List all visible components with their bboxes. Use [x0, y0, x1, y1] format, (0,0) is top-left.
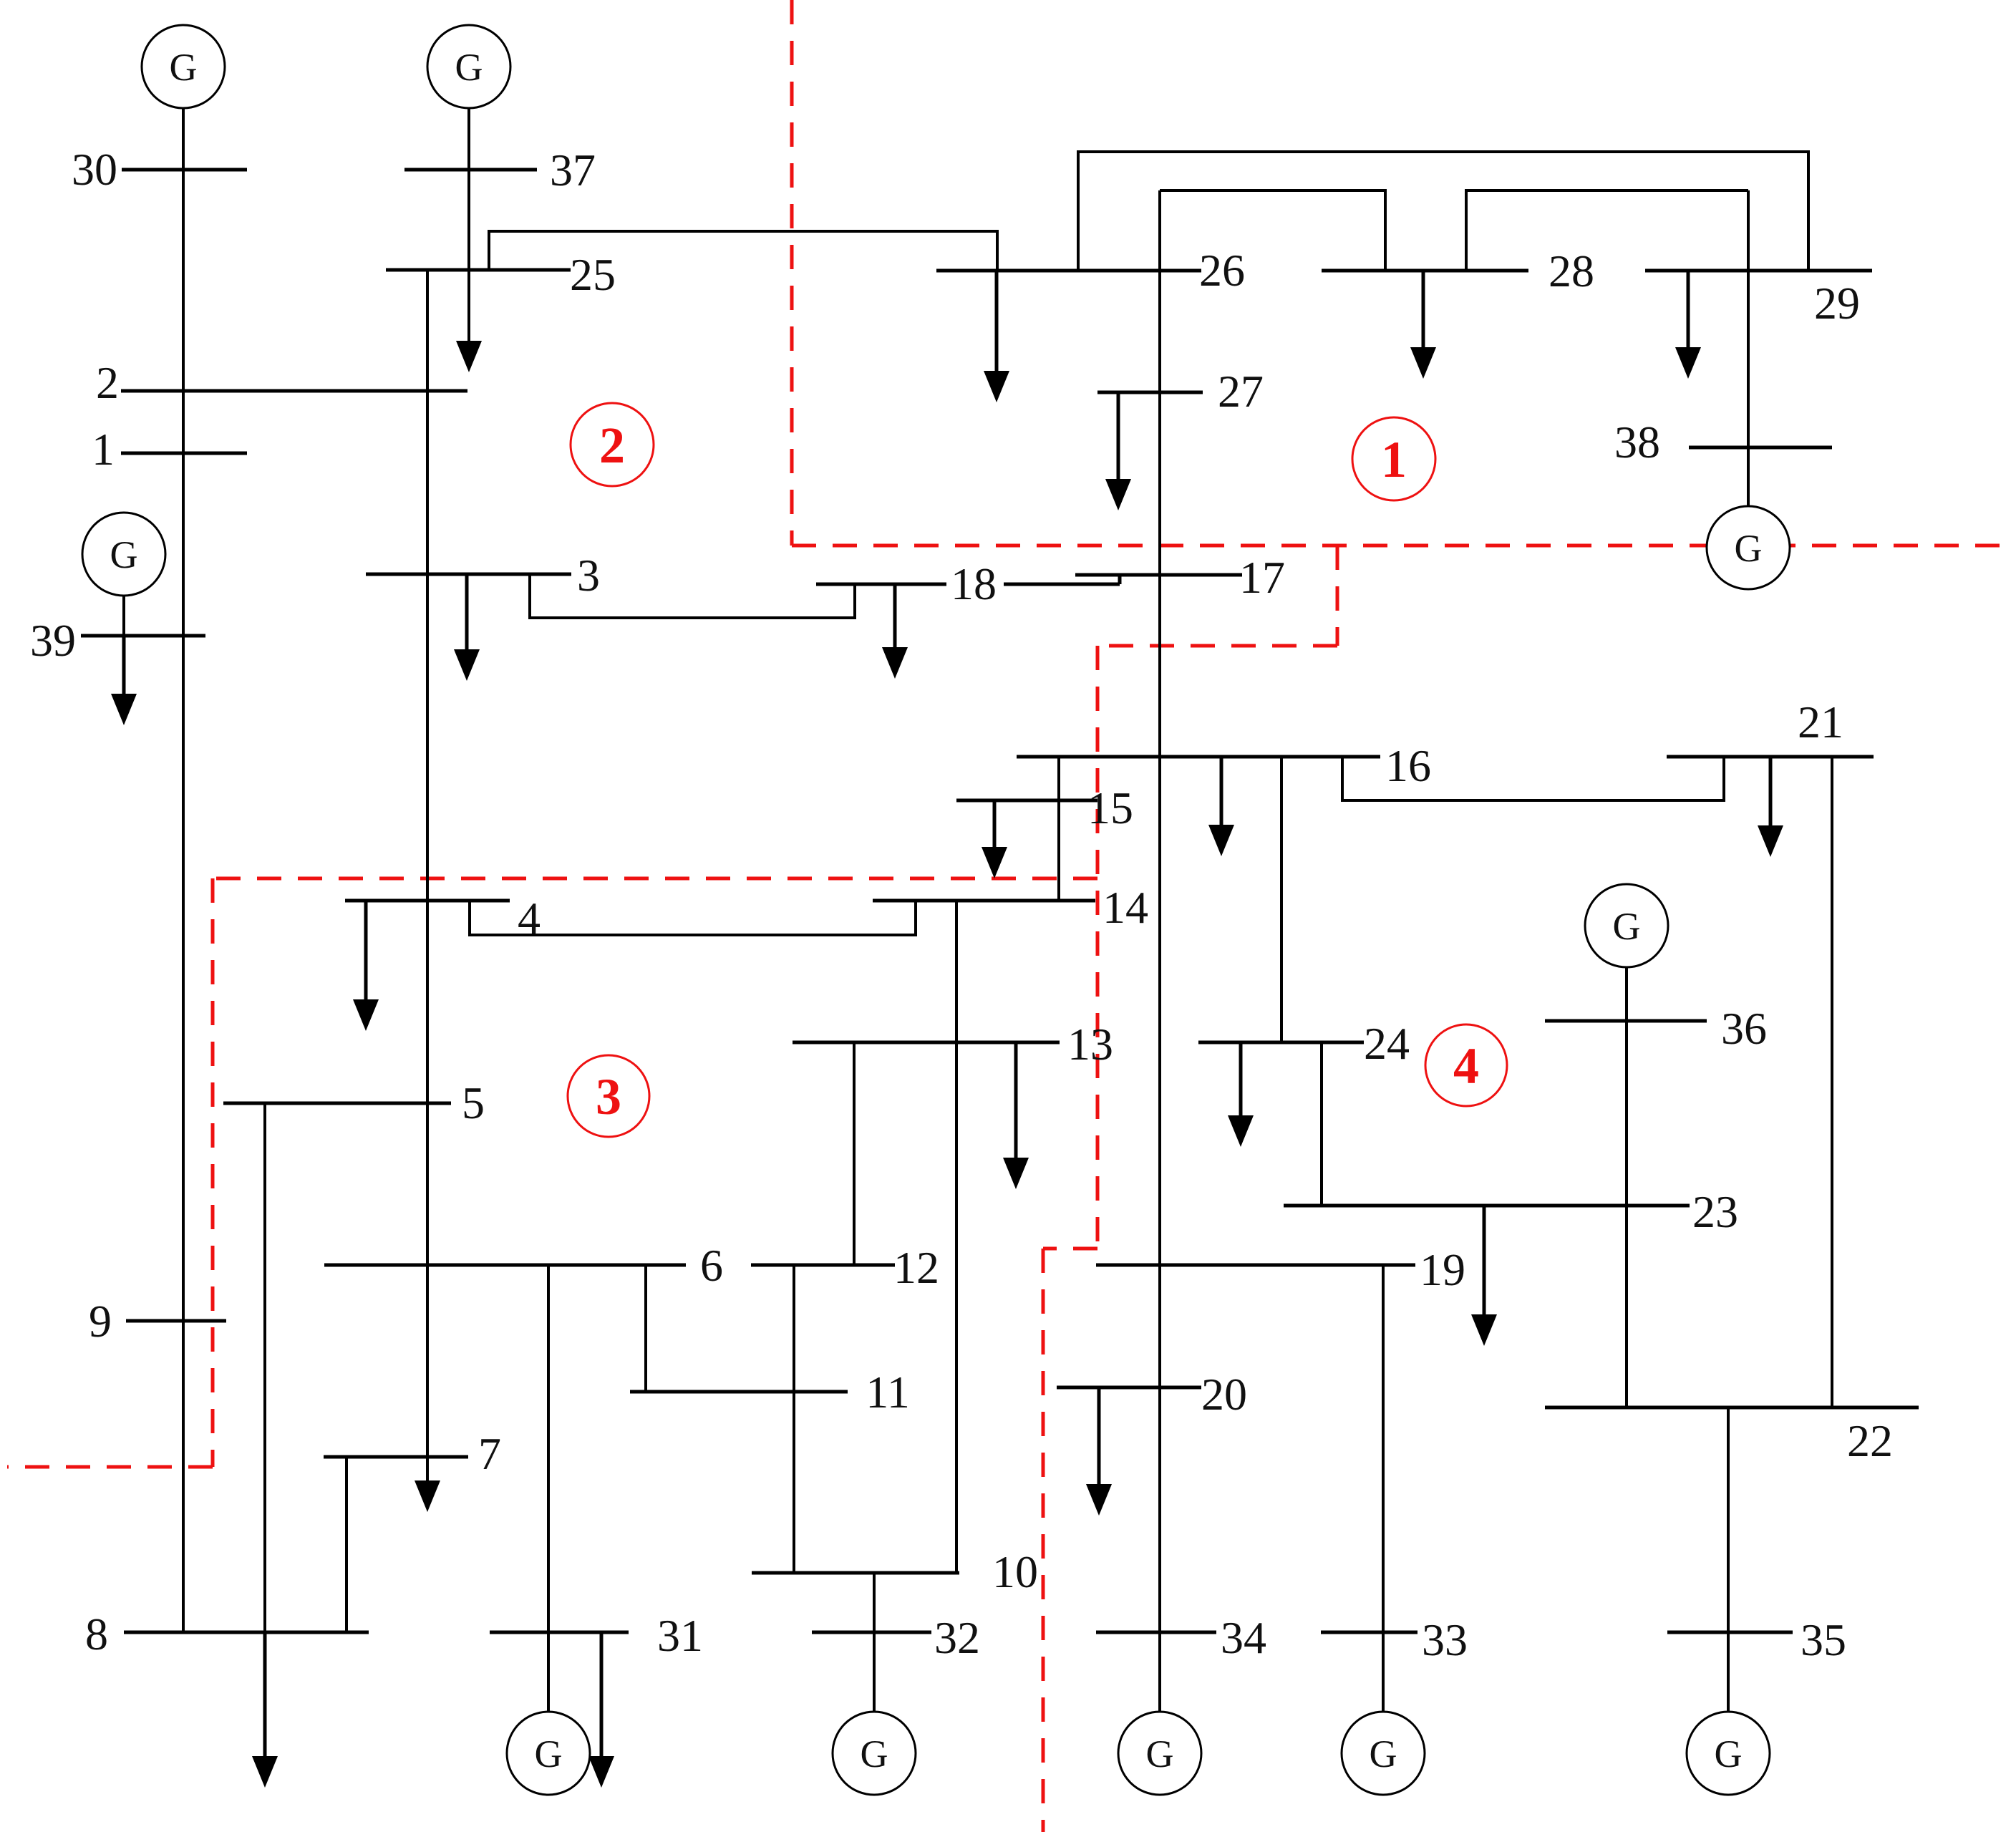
svg-text:29: 29	[1814, 278, 1860, 329]
svg-text:26: 26	[1199, 245, 1245, 296]
svg-text:28: 28	[1549, 246, 1594, 296]
svg-text:19: 19	[1420, 1244, 1465, 1295]
svg-text:G: G	[1370, 1732, 1397, 1775]
svg-text:8: 8	[85, 1609, 108, 1659]
svg-text:G: G	[1715, 1732, 1743, 1775]
svg-text:G: G	[170, 46, 198, 89]
svg-text:17: 17	[1239, 552, 1285, 603]
svg-text:G: G	[535, 1732, 563, 1775]
svg-text:16: 16	[1385, 740, 1431, 791]
svg-text:5: 5	[462, 1077, 485, 1128]
svg-text:31: 31	[657, 1610, 703, 1661]
svg-text:32: 32	[934, 1612, 980, 1663]
svg-text:18: 18	[951, 558, 997, 609]
svg-text:27: 27	[1218, 366, 1264, 417]
svg-text:3: 3	[596, 1068, 621, 1125]
svg-text:6: 6	[700, 1240, 723, 1291]
svg-text:24: 24	[1364, 1018, 1410, 1069]
svg-text:39: 39	[30, 615, 76, 666]
svg-text:G: G	[861, 1732, 888, 1775]
svg-text:G: G	[1146, 1732, 1174, 1775]
svg-text:37: 37	[550, 145, 596, 195]
svg-text:25: 25	[570, 249, 616, 300]
svg-text:G: G	[1735, 527, 1763, 570]
svg-text:11: 11	[866, 1367, 910, 1417]
svg-text:30: 30	[72, 144, 117, 195]
svg-text:33: 33	[1422, 1614, 1468, 1665]
svg-text:2: 2	[96, 357, 119, 408]
svg-text:38: 38	[1614, 417, 1660, 467]
svg-text:12: 12	[893, 1242, 939, 1293]
svg-text:23: 23	[1692, 1186, 1738, 1237]
svg-text:G: G	[110, 533, 138, 576]
svg-text:13: 13	[1067, 1019, 1113, 1070]
svg-text:G: G	[1613, 905, 1641, 948]
svg-text:21: 21	[1798, 697, 1843, 747]
svg-text:G: G	[455, 46, 483, 89]
svg-text:4: 4	[1453, 1037, 1479, 1095]
svg-text:14: 14	[1102, 882, 1148, 933]
svg-text:15: 15	[1087, 782, 1133, 833]
svg-text:7: 7	[478, 1428, 501, 1479]
svg-text:35: 35	[1801, 1614, 1846, 1665]
svg-text:20: 20	[1201, 1369, 1247, 1420]
svg-text:2: 2	[599, 417, 625, 474]
svg-text:36: 36	[1721, 1003, 1767, 1054]
svg-text:34: 34	[1221, 1612, 1266, 1663]
svg-text:3: 3	[577, 550, 600, 601]
svg-text:10: 10	[992, 1546, 1038, 1597]
svg-text:4: 4	[518, 893, 541, 944]
svg-text:1: 1	[1381, 431, 1407, 488]
svg-text:22: 22	[1847, 1415, 1893, 1466]
svg-text:9: 9	[89, 1296, 112, 1347]
svg-text:1: 1	[92, 424, 115, 475]
